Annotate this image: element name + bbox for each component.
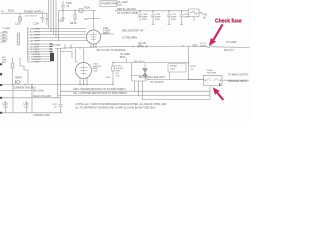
junction fuse F1 out bbox=[201, 12, 202, 13]
wire row y54 bbox=[34, 53, 51, 55]
svg-text:J102: J102 bbox=[106, 77, 112, 79]
svg-text:PILOT LT: PILOT LT bbox=[224, 49, 235, 52]
spark gap E1 bbox=[143, 63, 148, 80]
junction at C6 bbox=[152, 10, 153, 11]
wire row y51.5 bbox=[34, 51, 52, 53]
left edge page stubs bbox=[0, 63, 2, 114]
svg-text:R106: R106 bbox=[84, 7, 90, 10]
capacitor C2 bbox=[41, 13, 45, 23]
wire tube V1 plate to right bbox=[101, 33, 115, 35]
svg-text:13 VIO BLK: 13 VIO BLK bbox=[28, 61, 40, 63]
long mid bus wire 6.3VAC bbox=[55, 45, 250, 48]
svg-text:RED: RED bbox=[2, 37, 7, 39]
svg-text:1 GRN WHT: 1 GRN WHT bbox=[28, 28, 41, 30]
svg-text:450V: 450V bbox=[171, 19, 177, 21]
svg-text:CHASSIS GND: CHASSIS GND bbox=[33, 114, 50, 117]
svg-text:BLU 350 V: BLU 350 V bbox=[134, 61, 145, 63]
svg-text:C107: C107 bbox=[58, 20, 64, 23]
capacitor C6 bbox=[151, 11, 155, 25]
svg-text:R8 2K: R8 2K bbox=[70, 22, 77, 25]
wire row y40.5 bbox=[34, 40, 59, 42]
relay K1 box bbox=[168, 64, 186, 73]
tube V2 pin wires bbox=[80, 78, 87, 84]
wire fan row 5 bbox=[59, 11, 88, 41]
wire right net top bbox=[126, 59, 128, 63]
wire below fuse F1 bbox=[193, 17, 195, 22]
tube V1 pin wires bbox=[91, 44, 96, 48]
svg-text:DC: DC bbox=[119, 4, 123, 7]
annotation arrow 1 bbox=[209, 24, 224, 46]
junction at C8 bbox=[181, 10, 182, 11]
resistor R20 vertical bbox=[112, 63, 114, 85]
junction x188 bbox=[188, 79, 189, 80]
svg-text:GRN: GRN bbox=[192, 45, 198, 48]
wire row left y97.5 bbox=[0, 97, 60, 99]
annotation arrow 2 bbox=[213, 83, 224, 100]
svg-text:5 V RED BRN: 5 V RED BRN bbox=[122, 37, 137, 40]
svg-text:2A: 2A bbox=[203, 17, 206, 20]
ground wire y113 bbox=[0, 112, 62, 114]
junction at C5 bbox=[139, 10, 140, 11]
svg-text:TO OUTPUT: TO OUTPUT bbox=[150, 81, 164, 84]
capacitor C8 bbox=[180, 11, 184, 25]
junction gnd bus x13 bbox=[12, 84, 13, 85]
junction gnd bus x32 bbox=[31, 84, 32, 85]
wire bus line 4 to tube V1 bbox=[56, 0, 86, 38]
junction heater drop x71 bbox=[70, 47, 71, 48]
svg-text:SEL: SEL bbox=[138, 44, 143, 47]
wire feed tube V2 top bbox=[83, 48, 85, 62]
return wire 2 bbox=[139, 81, 211, 96]
wire vertical x93 to tube V1 bbox=[93, 11, 95, 31]
svg-text:BLU PLATE LEAD 430 V: BLU PLATE LEAD 430 V bbox=[139, 76, 166, 79]
svg-text:C104: C104 bbox=[33, 23, 39, 26]
wire row y34.5 bbox=[34, 34, 54, 36]
junction pin V1-1 bbox=[90, 46, 91, 47]
wire net horizontal y62.5 bbox=[113, 62, 189, 64]
junction pin V2 bbox=[83, 84, 85, 86]
wire vertical x13 lower bbox=[12, 85, 14, 113]
terminal box top bbox=[100, 1, 117, 7]
junction x113 net top bbox=[112, 62, 113, 63]
svg-text:YEL 6.3 VAC TO HEATERS: YEL 6.3 VAC TO HEATERS bbox=[96, 49, 126, 52]
svg-text:TO OUTPUT XFMR: TO OUTPUT XFMR bbox=[117, 12, 138, 15]
wire fuse F2 out right bbox=[222, 79, 249, 81]
wire long x131 vertical bbox=[131, 63, 133, 76]
wire bus line 2 to tube V1 bbox=[51, 0, 86, 32]
svg-text:RED B+ 420 VDC: RED B+ 420 VDC bbox=[117, 8, 136, 11]
junction at C3 drop bbox=[62, 10, 63, 11]
svg-text:450V: 450V bbox=[155, 19, 161, 21]
svg-text:450V: 450V bbox=[142, 19, 148, 21]
tube V2 internal electrodes bbox=[80, 65, 88, 76]
svg-text:OUT: OUT bbox=[93, 70, 98, 72]
svg-text:BRN: BRN bbox=[2, 40, 7, 42]
wire step x72 bbox=[61, 52, 73, 59]
wire relay K1 to plate line bbox=[169, 72, 171, 80]
heater drop wires bbox=[65, 44, 71, 48]
wire from fuse to right bbox=[199, 12, 202, 14]
fuse F2 box bbox=[204, 75, 223, 85]
svg-text:FIELD COIL RET: FIELD COIL RET bbox=[33, 95, 52, 98]
svg-text:RED CENTER T AP: RED CENTER T AP bbox=[122, 30, 144, 33]
svg-text:GRN: GRN bbox=[2, 31, 7, 33]
tube V1 envelope bbox=[87, 30, 101, 44]
svg-text:RET: RET bbox=[2, 62, 7, 64]
svg-text:BLU: BLU bbox=[2, 34, 7, 36]
left stub wires off page bbox=[0, 33, 8, 42]
wire bus line 1 to tube V1 bbox=[49, 0, 87, 29]
svg-text:R125: R125 bbox=[191, 66, 197, 68]
resistor R4 on line bbox=[79, 9, 83, 12]
wire staircase left bbox=[20, 58, 28, 85]
return wire 1 bbox=[135, 81, 211, 91]
capacitor C12 bbox=[59, 105, 63, 113]
svg-text:TO MAIN OUTPUT: TO MAIN OUTPUT bbox=[228, 74, 249, 77]
wire row y56.5 bbox=[34, 56, 51, 58]
svg-text:Check fuse: Check fuse bbox=[215, 19, 242, 25]
svg-text:ALL TO DIFFERENT CHASSIS GND ,: ALL TO DIFFERENT CHASSIS GND ,5 AMP. SL … bbox=[75, 106, 157, 109]
svg-text:GRN • HEATER RETURN 6.3V TO: GRN • HEATER RETURN 6.3V TO PWR XFMR 4 bbox=[73, 88, 126, 91]
ground bus wire y84.5 bbox=[0, 84, 112, 86]
junction fuse F2 out bbox=[220, 80, 221, 81]
wire vertical at x20 bbox=[19, 13, 21, 21]
wire row left y90.5 bbox=[0, 90, 32, 92]
junction pin V1-3 bbox=[95, 46, 96, 47]
wire row y37 bbox=[34, 37, 56, 39]
svg-text:C116: C116 bbox=[23, 103, 29, 106]
wire x188 vertical bbox=[188, 46, 190, 79]
wire bus line 3 to tube V1 bbox=[54, 0, 88, 35]
connector J1 upper contacts bbox=[50, 43, 53, 52]
svg-text:3 RED WHT: 3 RED WHT bbox=[28, 34, 41, 36]
capacitor C3 top-middle bbox=[61, 1, 65, 11]
wire row y61.5 bbox=[34, 61, 51, 63]
capacitor C11 bbox=[25, 101, 29, 113]
diode D1 diamond bbox=[16, 80, 21, 84]
transformer T1 box bbox=[132, 76, 147, 82]
varistor VR1 diamonds on mid wire bbox=[137, 45, 148, 48]
wire row y59 bbox=[34, 58, 51, 60]
wire bar above tube V1 bbox=[87, 18, 100, 20]
svg-text:HOLDER: HOLDER bbox=[207, 73, 217, 75]
junction on heater line x133 bbox=[132, 46, 133, 47]
capacitor C5 bbox=[138, 11, 142, 21]
junction at R3 drop bbox=[74, 10, 75, 11]
junction x188 bbox=[188, 62, 189, 63]
svg-text:SPKR: SPKR bbox=[15, 77, 22, 80]
junction gnd bus x25 bbox=[24, 84, 25, 85]
svg-text:BLK GND: BLK GND bbox=[33, 90, 44, 93]
svg-text:RECT: RECT bbox=[103, 32, 110, 35]
junction heater drop x80 bbox=[79, 47, 80, 48]
junction x113 bbox=[112, 84, 113, 85]
svg-text:RELAY: RELAY bbox=[170, 65, 178, 68]
junction fuse F2 in bbox=[204, 80, 205, 81]
svg-text:C115: C115 bbox=[2, 103, 8, 106]
long vertical wires x57 x60 bbox=[58, 48, 61, 104]
capacitor C10 bbox=[4, 101, 8, 113]
svg-text:TO AMP: TO AMP bbox=[2, 27, 11, 30]
wire row y31.5 bbox=[34, 31, 51, 33]
svg-text:4 BRN WHT: 4 BRN WHT bbox=[28, 37, 41, 39]
wire top-middle horizontal bbox=[59, 10, 97, 12]
wire row y49 bbox=[34, 48, 52, 50]
junction at C7 bbox=[168, 10, 169, 11]
return wire 3 bbox=[143, 81, 211, 100]
svg-text:YEL • CATHODE RETURN BUS TO: YEL • CATHODE RETURN BUS TO PWR XFMR 6 bbox=[73, 92, 128, 95]
wire feed tube V2 left bbox=[76, 48, 79, 62]
svg-text:5 GRY WHT: 5 GRY WHT bbox=[28, 40, 41, 42]
tube V2 envelope bbox=[76, 63, 92, 79]
resistor R2 on x20 drop bbox=[19, 17, 21, 21]
svg-text:6.3 VAC: 6.3 VAC bbox=[52, 44, 61, 47]
wire below fuse F2 bbox=[209, 86, 211, 100]
junction heater drop x65 bbox=[64, 47, 65, 48]
fuse F2 element 2 bbox=[214, 79, 220, 80]
svg-text:2A SB: 2A SB bbox=[200, 44, 207, 47]
junction plate line x148 bbox=[147, 79, 148, 80]
wire fuse F2 in left bbox=[189, 79, 204, 81]
wire row y46.5 bbox=[34, 46, 52, 48]
wire vertical x32 lower bbox=[31, 85, 33, 113]
connector J1 dark contact block bbox=[50, 53, 54, 61]
wire top-left horizontal bbox=[1, 12, 47, 14]
junction pin V2 bbox=[86, 84, 88, 86]
junction on heater line x183 bbox=[182, 45, 183, 46]
svg-text:TO LAMP: TO LAMP bbox=[226, 41, 237, 44]
wire row y28.5 bbox=[34, 28, 49, 30]
resistor R8 left vertical bbox=[11, 58, 14, 85]
capacitor C7 bbox=[167, 11, 171, 25]
wire B+ horizontal top bbox=[115, 10, 189, 12]
resistor ladder RN1 bbox=[17, 33, 19, 45]
svg-text:K101: K101 bbox=[170, 69, 176, 71]
wire row y44 bbox=[34, 43, 52, 45]
tube V1 internal electrodes bbox=[90, 32, 97, 41]
svg-text:BIAS: BIAS bbox=[120, 56, 126, 59]
fuse F2 element 1 bbox=[206, 79, 212, 80]
fuse F1 symbol bbox=[190, 11, 197, 14]
svg-text:2 BLU WHT: 2 BLU WHT bbox=[28, 31, 40, 33]
labelled wire row y95.5 bbox=[58, 95, 139, 97]
labelled wire row y91 bbox=[61, 90, 135, 92]
svg-text:POWER XFMR: POWER XFMR bbox=[102, 3, 119, 6]
svg-text:C102: C102 bbox=[15, 23, 21, 26]
svg-text:POWER SUPPLY: POWER SUPPLY bbox=[24, 10, 43, 13]
wire vertical at x47 bbox=[46, 13, 48, 25]
junction pin V2 bbox=[79, 84, 81, 86]
svg-text:20MF: 20MF bbox=[184, 17, 190, 19]
left connector J1 spine bbox=[27, 27, 29, 62]
svg-text:SPEAKER FIELD: SPEAKER FIELD bbox=[228, 80, 247, 83]
svg-text:R101: R101 bbox=[8, 9, 15, 13]
fuse F1 box bbox=[189, 9, 200, 17]
junction pin V1-2 bbox=[93, 46, 94, 47]
svg-text:115 V 60 CY: 115 V 60 CY bbox=[25, 15, 38, 17]
wire vertical drop x63 bbox=[62, 11, 65, 23]
wire plate line y79.5 bbox=[148, 79, 204, 81]
resistor R3 drop x75 bbox=[74, 11, 76, 23]
